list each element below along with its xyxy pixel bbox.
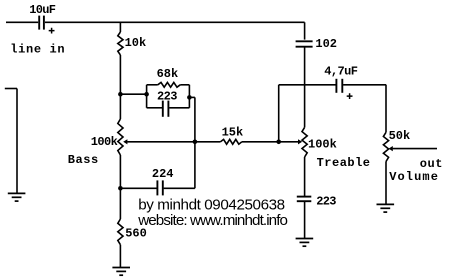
svg-text:68k: 68k [157,67,179,81]
svg-text:100k: 100k [308,138,337,152]
capacitor 4,7uF [279,65,387,99]
svg-text:223: 223 [316,194,336,208]
node A [118,92,123,97]
node B [144,92,149,97]
wire [146,85,148,108]
node D [193,140,198,145]
wire [5,89,17,194]
wire [119,245,121,268]
svg-text:4,7uF: 4,7uF [324,65,358,79]
svg-text:Treable: Treable [317,156,371,170]
ground [8,193,26,201]
resistor 560 [118,219,147,245]
svg-text:100k: 100k [91,135,118,149]
resistor 68k [147,67,190,87]
svg-text:Volume: Volume [389,170,439,184]
potentiometer 50k Volume [383,129,410,161]
wire [385,162,387,205]
capacitor 224 [120,167,194,195]
potentiometer 100k Bass [91,119,123,155]
svg-text:by minhdt 0904250638: by minhdt 0904250638 [138,196,285,213]
wiper arrow treble [298,139,302,144]
label watermark line 2 [137,212,287,229]
capacitor 223 [147,90,190,117]
wire [304,157,306,196]
wire [242,141,300,143]
label out [420,157,443,171]
svg-text:223: 223 [157,90,177,104]
wire [189,97,195,188]
resistor 10k [118,32,146,55]
wire [119,55,121,119]
ground [112,268,130,276]
node F [118,186,123,191]
svg-text:15k: 15k [222,126,244,140]
wire [45,21,305,23]
label Volume [389,170,439,184]
svg-text:line in: line in [10,43,65,57]
label watermark line 1 [138,196,285,213]
capacitor 102 [296,37,337,51]
capacitor 10uF [29,3,56,33]
resistor 15k [221,126,244,145]
wiper arrow volume [389,146,393,151]
svg-text:website: www.minhdt.info: website: www.minhdt.info [137,212,287,229]
label Bass [68,153,99,167]
node C [187,95,192,100]
wire [119,22,121,32]
wire [120,93,146,95]
svg-text:50k: 50k [389,129,411,143]
ground [296,239,314,247]
wire [304,47,306,128]
wire [127,141,220,143]
node E [276,140,281,145]
label Treable [317,156,371,170]
node input label [10,43,65,57]
svg-text:102: 102 [315,37,337,51]
wire [385,85,387,133]
wire [304,22,306,39]
svg-text:10uF: 10uF [29,3,56,17]
svg-text:Bass: Bass [68,153,99,167]
capacitor 223 bottom [297,194,336,208]
wire [119,155,121,219]
potentiometer 100k Treable [302,127,337,157]
wire [6,21,38,23]
wire [188,85,190,108]
wiper arrow bass [123,139,127,144]
svg-text:224: 224 [152,167,174,181]
svg-text:out: out [420,157,443,171]
ground [377,204,395,212]
wire [278,85,280,142]
wire [304,201,306,238]
wire [393,148,437,150]
svg-text:10k: 10k [125,36,147,50]
